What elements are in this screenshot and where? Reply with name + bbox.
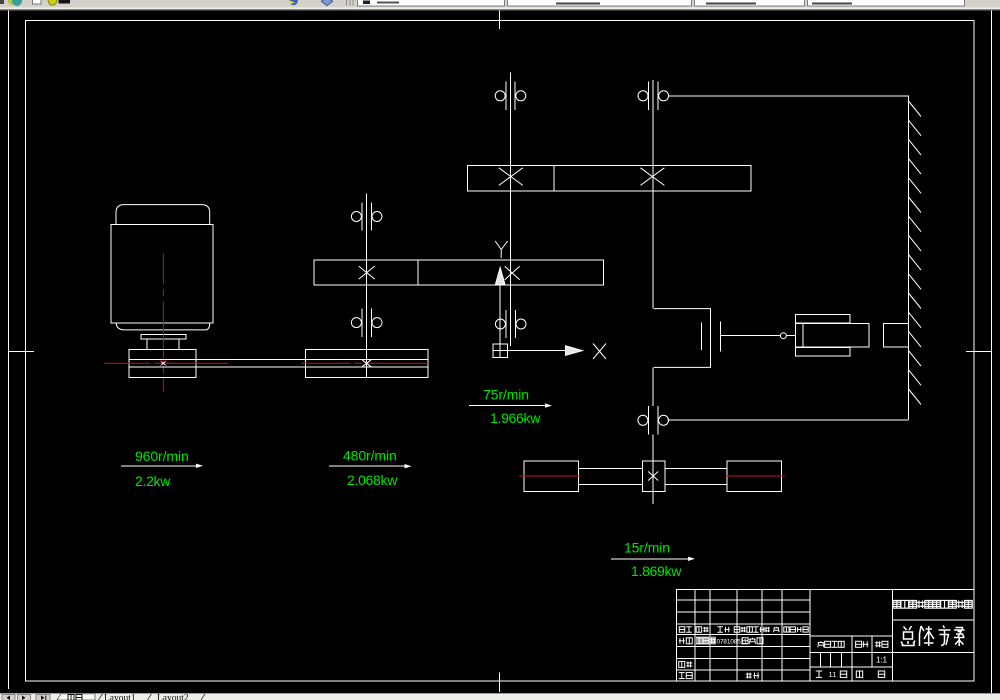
- title block right section divider: [891, 590, 893, 682]
- svg-text:75r/min: 75r/min: [483, 387, 529, 403]
- tab nav button next: [18, 695, 31, 700]
- pulley P2: [305, 350, 428, 378]
- svg-text:1.869kw: 1.869kw: [631, 563, 682, 579]
- tool head body: [803, 324, 869, 347]
- link line wall bottom to shaft IV bottom bearing: [668, 419, 909, 421]
- title block stage mark labels: [818, 642, 824, 644]
- title block sheet count: [816, 670, 822, 672]
- toolbar icon yellow ball: [48, 0, 57, 5]
- belt drive centerline red horizontal: [104, 362, 228, 364]
- toolbar combo box 1: [358, 0, 505, 6]
- bottom shaft center section: [642, 461, 664, 491]
- gear rectangle shaft III-IV: [468, 165, 751, 191]
- tool head left column: [795, 324, 803, 347]
- motor centerline vertical red: [162, 253, 164, 392]
- bottom shaft right section: [727, 461, 781, 491]
- shaft II top bearing: [361, 202, 363, 230]
- svg-text:Layout1: Layout1: [104, 694, 136, 700]
- shaft IV bottom bearing: [648, 406, 650, 434]
- svg-text:2.068kw: 2.068kw: [347, 472, 398, 488]
- layout2 tab: [148, 694, 152, 700]
- shaft III bottom bearing: [505, 310, 507, 338]
- axis X arrow: [566, 346, 583, 356]
- centering tick left: [9, 351, 35, 353]
- shaft II vertical line: [366, 194, 368, 378]
- gear rect II-III divider: [417, 260, 419, 285]
- title block shenhe row: [679, 661, 685, 667]
- motor M1 top cap: [116, 205, 210, 225]
- axis label Y: [495, 241, 501, 250]
- axis Y arrow: [495, 268, 505, 285]
- axis Y line: [499, 285, 501, 345]
- bottom shaft center X mark: [648, 472, 658, 481]
- toolbar combo box 4: [808, 0, 965, 6]
- motor M1 shaft stem: [147, 339, 179, 349]
- centering tick bottom: [499, 673, 501, 693]
- title block header row labels: [679, 627, 685, 633]
- toolbar separators: [346, 0, 348, 6]
- svg-text:1.966kw: 1.966kw: [490, 410, 541, 426]
- drawing window left edge: [8, 11, 10, 690]
- gear X mark shaft II: [359, 266, 375, 279]
- school name: [893, 600, 901, 608]
- title block left grid horizontals: [676, 599, 810, 601]
- bottom shaft centerline red left: [519, 475, 581, 477]
- svg-text:11: 11: [829, 670, 837, 679]
- svg-text:1:1: 1:1: [876, 656, 888, 665]
- gear rectangle shaft II-III: [314, 260, 603, 285]
- svg-text:2.2kw: 2.2kw: [135, 473, 171, 489]
- toolbar icon fragment dark: [0, 0, 4, 4]
- svg-text:480r/min: 480r/min: [343, 448, 397, 464]
- title block outer: [676, 590, 974, 682]
- centering tick top: [499, 11, 501, 30]
- toolbar icon sphere teal: [8, 0, 16, 5]
- tool head top plate: [795, 315, 850, 323]
- title block left grid verticals: [694, 590, 696, 682]
- tab nav button last: [36, 695, 50, 700]
- drawing title big characters: [901, 626, 915, 646]
- motor M1 flange plate: [141, 334, 186, 339]
- svg-text:960r/min: 960r/min: [135, 448, 189, 464]
- svg-text:15r/min: 15r/min: [624, 540, 670, 556]
- motor M1 body: [111, 225, 213, 323]
- toolbar icon blue diamond: [321, 0, 332, 6]
- rod pin joint: [780, 333, 786, 339]
- toolbar icon white box: [33, 0, 42, 4]
- motor M1 bottom bell: [116, 323, 210, 330]
- crank yoke: [654, 309, 711, 368]
- toolbar icon blue-yellow: [289, 0, 298, 5]
- wall line: [907, 96, 909, 420]
- workpiece block: [884, 324, 909, 347]
- bottom shaft left section: [524, 461, 578, 491]
- shaft IV top bearing: [648, 82, 650, 110]
- toolbar combo box 2: [508, 0, 692, 6]
- top toolbar strip: [0, 0, 1000, 8]
- title block gongyi row: [679, 672, 685, 674]
- shaft III top bearing: [505, 82, 507, 110]
- gear X mark shaft III top: [499, 168, 523, 186]
- belt line bottom: [129, 366, 428, 368]
- gear rect III-IV divider: [553, 165, 555, 191]
- svg-text:0781085119: 0781085119: [717, 639, 752, 646]
- centering tick right: [966, 351, 992, 353]
- bottom shaft left thin section: [578, 468, 642, 484]
- crank disc bar inner: [701, 322, 703, 350]
- shaft IV vertical line: [652, 80, 654, 309]
- shaft IV below bearing to bottom shaft: [652, 435, 654, 504]
- pulley P2 center mark: [362, 360, 371, 367]
- pulley P1 center mark: [160, 360, 167, 366]
- connecting rod: [720, 335, 780, 337]
- title block middle verticals: [851, 636, 853, 681]
- shaft II bottom bearing: [361, 308, 363, 336]
- shaft IV lower segment: [652, 367, 654, 406]
- pulley P1: [129, 349, 196, 377]
- wall hatching: [909, 101, 922, 117]
- shaft III vertical line: [510, 73, 512, 346]
- title block shejì row: [679, 638, 681, 644]
- axis X line: [508, 350, 566, 352]
- gear X mark shaft IV top: [640, 168, 664, 186]
- bottom status strip: [0, 693, 1000, 700]
- drawing window right edge: [991, 11, 993, 694]
- title block middle horizontals: [810, 635, 892, 637]
- belt line top: [129, 358, 428, 360]
- axis label X: [593, 344, 606, 360]
- link line shaft IV top bearing to wall: [669, 95, 908, 97]
- tool head bottom plate: [795, 348, 850, 356]
- bottom shaft centerline red right: [726, 475, 786, 477]
- crank disc bar outer: [719, 322, 721, 352]
- gear X mark shaft III mid: [505, 266, 520, 280]
- tab nav button first: [2, 695, 15, 700]
- toolbar combo box 3: [695, 0, 805, 6]
- model tab: [57, 694, 95, 700]
- axis origin box: [493, 344, 508, 358]
- layout1 tab: [99, 694, 103, 700]
- svg-text:Layout2: Layout2: [157, 694, 189, 700]
- toolbar icon black bar: [59, 0, 71, 3]
- bottom shaft right thin section: [665, 468, 727, 484]
